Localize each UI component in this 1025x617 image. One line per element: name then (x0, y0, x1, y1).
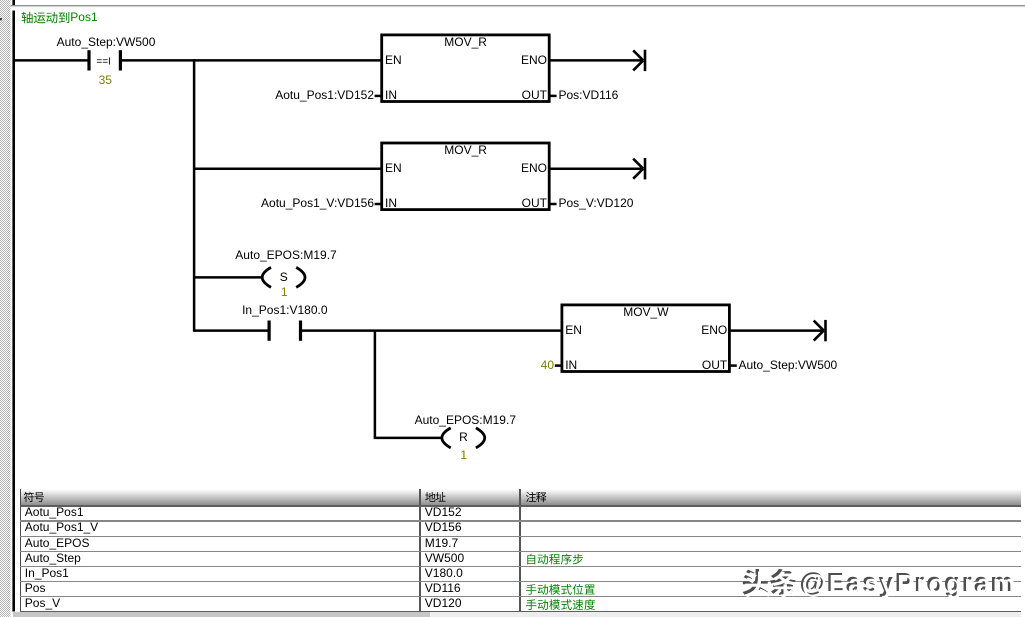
contact operator ==I (96, 57, 110, 69)
table row line 6 (20, 596, 1021, 597)
coil R Auto_EPOS:M19.7 (442, 428, 451, 448)
wire ENO out 3 (730, 329, 822, 332)
header 符号 (24, 492, 44, 502)
network title 轴运动到Pos1 (22, 12, 70, 24)
compare contact ==I Auto_Step:VW500 (87, 50, 90, 70)
constant 35 (99, 74, 112, 88)
rung continuation arrow 2 (633, 159, 643, 169)
table row line 5 (20, 581, 1021, 582)
table row line 0 (20, 505, 1021, 507)
OUT pin tick 2 (550, 203, 557, 206)
symbol row In_Pos1 (25, 567, 69, 581)
IN pin tick 2 (375, 203, 382, 206)
symbol table header (20, 489, 1021, 507)
OUT pin tick (550, 95, 557, 98)
table row line 3 (20, 551, 1021, 552)
symbol row Pos (25, 582, 46, 596)
network selection mark (0, 18, 2, 20)
pin ENO 2 (521, 162, 547, 176)
symbol row Aotu_Pos1_V (25, 521, 98, 535)
previous network rail stub (12, 0, 15, 5)
table column line 注释 (519, 489, 521, 611)
coil letter R (459, 431, 468, 445)
header 注释 (526, 492, 546, 502)
operand Auto_Step:VW500 out (739, 359, 838, 373)
symbol row Pos_V (25, 597, 60, 611)
table row line 7 (20, 611, 1021, 613)
bottom scrollbar thumb (13, 612, 430, 617)
symbol row Aotu_Pos1 (25, 506, 84, 520)
label Auto_Step:VW500 (57, 36, 156, 50)
R count 1 (460, 449, 467, 463)
table row line 1 (20, 520, 1021, 521)
operand Aotu_Pos1_V:VD156 (261, 197, 374, 211)
pin EN 2 (385, 162, 402, 176)
label Auto_EPOS:M19.7 (S) (235, 249, 336, 263)
wire contact to MOV_R EN (121, 59, 381, 62)
label Auto_EPOS:M19.7 (R) (415, 414, 516, 428)
wire to R coil (374, 437, 441, 440)
wire branch to MOV_R2 EN (194, 167, 382, 170)
address VD156 (425, 521, 462, 535)
pin IN 2 (385, 197, 397, 211)
watermark 头条 white layer (745, 571, 798, 597)
wire ENO out (550, 59, 642, 62)
watermark @EasyProgram dark layer (800, 571, 1016, 597)
header 地址 (425, 492, 445, 502)
pin EN 3 (565, 324, 582, 338)
address VW500 (425, 552, 464, 566)
wire branch to S coil (194, 276, 261, 279)
constant 40 (541, 359, 554, 373)
address M19.7 (425, 537, 458, 551)
operand Aotu_Pos1:VD152 (275, 89, 374, 103)
table outer left border (20, 489, 22, 611)
table row line 2 (20, 536, 1021, 537)
table column line 地址 (419, 489, 421, 611)
wire ENO out 2 (550, 167, 642, 170)
address V180.0 (425, 567, 463, 581)
wire contact to MOV_W EN (301, 329, 563, 332)
wire branch to In_Pos1 contact (194, 329, 268, 332)
bottom scrollbar track (13, 612, 1021, 617)
title MOV_R (444, 36, 487, 50)
operand Pos_V:VD120 (559, 197, 634, 211)
pin IN (385, 89, 397, 103)
block MOV_R U1 (382, 35, 550, 102)
pin ENO (521, 54, 547, 68)
watermark @EasyProgram white layer (802, 573, 1018, 599)
table row line 4 (20, 566, 1021, 567)
address VD152 (425, 506, 462, 520)
left power rail (12, 11, 15, 612)
S count 1 (281, 286, 288, 300)
network title Pos1 (70, 11, 97, 25)
address VD120 (425, 597, 462, 611)
contact In_Pos1:V180.0 (268, 321, 271, 341)
pin ENO 3 (701, 324, 727, 338)
label In_Pos1:V180.0 (242, 304, 327, 318)
IN pin tick (375, 95, 382, 98)
pin EN (385, 54, 402, 68)
symbol row Auto_Step (25, 552, 81, 566)
comment 自动程序步 (527, 554, 583, 565)
symbol row Auto_EPOS (25, 537, 90, 551)
comment 手动模式位置 (526, 584, 595, 595)
operand Pos:VD116 (559, 89, 619, 103)
drop wire to R coil (374, 331, 377, 438)
branch vertical wire (193, 59, 196, 332)
block MOV_W U3 (562, 305, 730, 372)
pin OUT 3 (702, 359, 727, 373)
rung continuation arrow 1 (633, 50, 643, 60)
IN pin tick 3 (555, 364, 562, 367)
wire rail to contact (15, 59, 88, 62)
title MOV_R 2 (444, 144, 487, 158)
address VD116 (425, 582, 461, 596)
comment 手动模式速度 (526, 599, 595, 610)
pin OUT (522, 89, 547, 103)
watermark 头条 dark layer (743, 569, 796, 595)
pin OUT 2 (522, 197, 547, 211)
network separator line (11, 5, 1025, 6)
rung continuation arrow 3 (814, 321, 824, 331)
coil S Auto_EPOS:M19.7 (262, 267, 271, 287)
title MOV_W (623, 306, 668, 320)
OUT pin tick 3 (730, 364, 737, 367)
coil letter S (280, 271, 288, 285)
pin IN 3 (565, 359, 577, 373)
block MOV_R U2 (382, 143, 550, 210)
